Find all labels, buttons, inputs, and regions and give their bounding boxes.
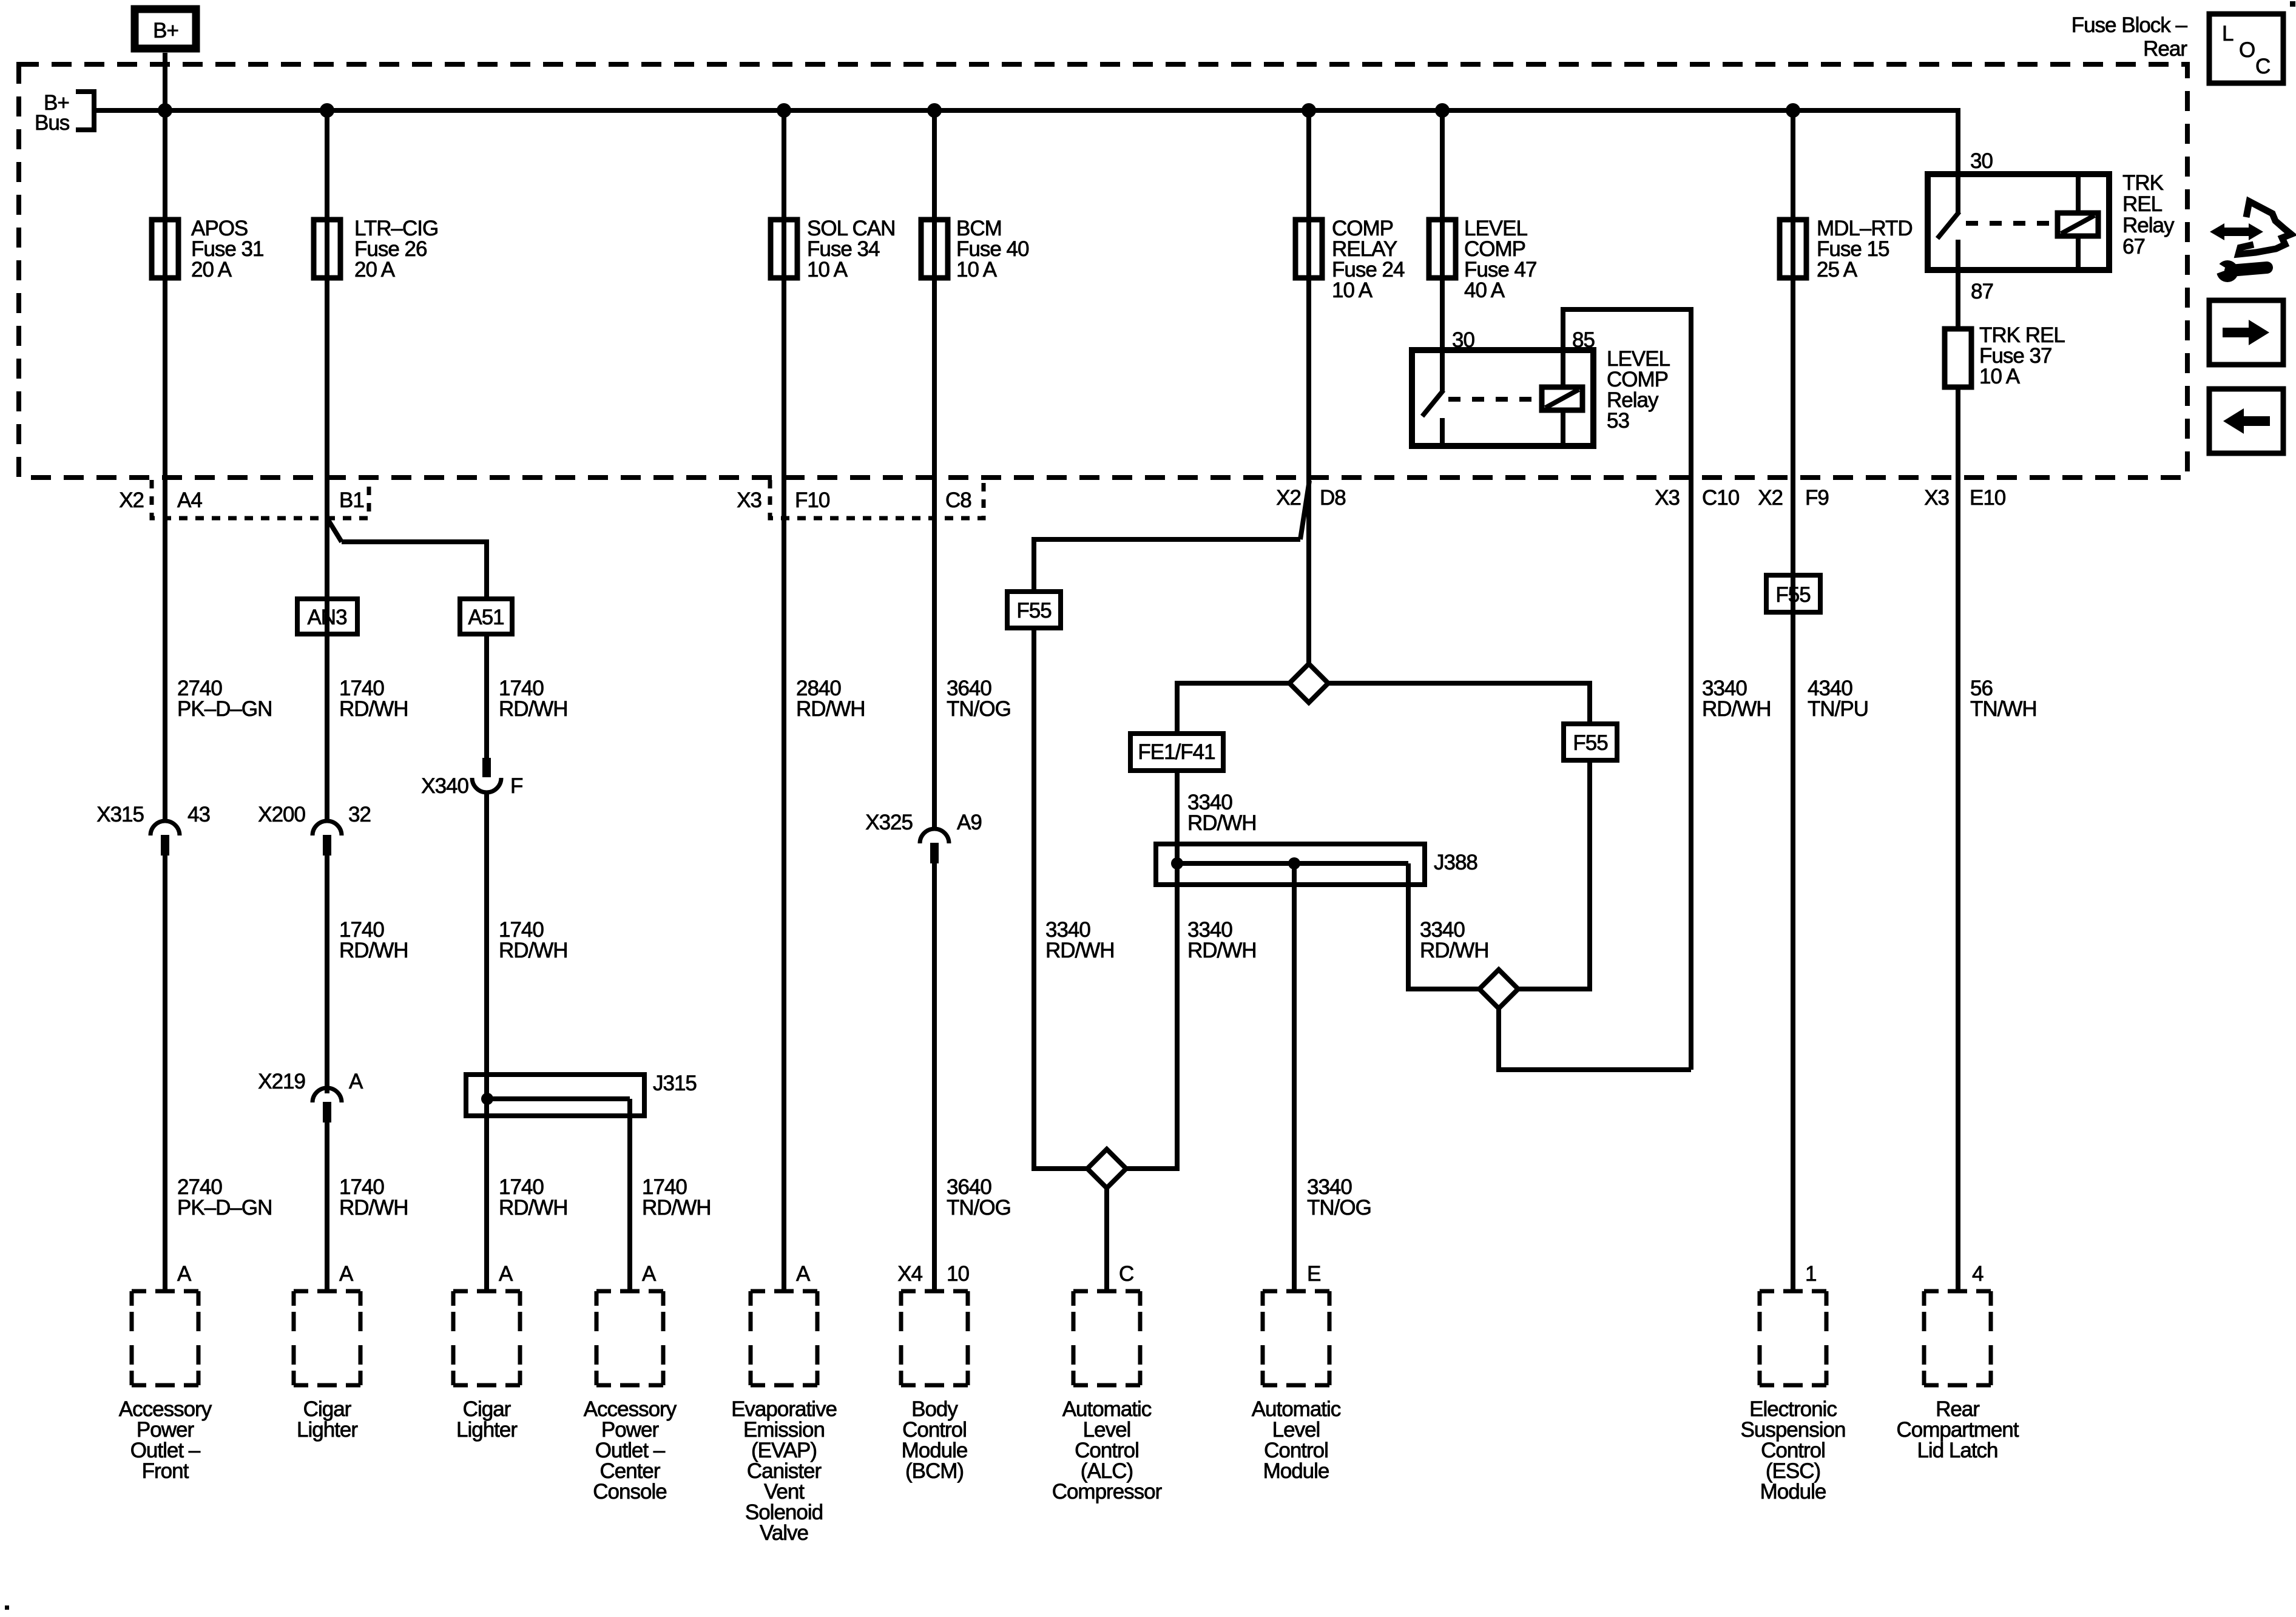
- svg-text:C: C: [1119, 1262, 1133, 1286]
- junction dot J388 middle: [1288, 857, 1300, 869]
- wire: branch at pin B1 (diagonal jog): [327, 518, 342, 542]
- relay 67 switch blade: [1937, 212, 1959, 238]
- svg-text:F55: F55: [1775, 583, 1810, 607]
- label circuit 1740 RD/WH (cigar lighter 2): [499, 1175, 568, 1220]
- label X315 / pin 43: [96, 803, 210, 826]
- label Cigar Lighter 2: [456, 1397, 518, 1442]
- relay 53 coil: [1542, 387, 1582, 410]
- connector F55 (left): [1007, 592, 1061, 628]
- label X340 / pin F: [421, 774, 522, 798]
- svg-text:RD/WH: RD/WH: [1187, 811, 1257, 835]
- svg-text:10 A: 10 A: [807, 258, 848, 282]
- connector X219 (splice symbol): [312, 1088, 342, 1122]
- fuse F26 LTR-CIG 20A: [314, 220, 340, 278]
- relay 67 switch contact / pin 87 wire: [1956, 240, 1960, 329]
- fuse F24 COMP RELAY 10A: [1295, 220, 1322, 278]
- wire: relay 53 pin 85 up and over to C10: [1563, 309, 1691, 1070]
- svg-text:X2: X2: [1276, 486, 1301, 510]
- wire: lower diamond to C10 riser: [1499, 1008, 1691, 1070]
- svg-text:X2: X2: [119, 488, 144, 512]
- component: Cigar Lighter (dashed box): [294, 1291, 360, 1385]
- svg-text:X219: X219: [258, 1070, 305, 1093]
- svg-text:AN3: AN3: [307, 606, 346, 629]
- svg-text:X4: X4: [897, 1262, 922, 1286]
- svg-text:40 A: 40 A: [1464, 279, 1505, 302]
- connector A51: [460, 599, 512, 634]
- svg-text:32: 32: [348, 803, 371, 826]
- service tool icon (wrench): [2212, 260, 2267, 282]
- svg-text:10 A: 10 A: [956, 258, 998, 282]
- label circuit 2740 PK-D-GN (upper): [177, 677, 272, 721]
- wire: F55 left down to ALC diamond: [1034, 628, 1087, 1169]
- svg-text:B1: B1: [339, 488, 364, 512]
- label circuit 3340 RD/WH (below J388 left): [1187, 918, 1257, 962]
- junction dot J388 left: [1171, 857, 1183, 869]
- connector FE1/F41: [1130, 734, 1223, 771]
- svg-text:C8: C8: [945, 488, 971, 512]
- label Cigar Lighter: [297, 1397, 358, 1442]
- label TRK REL Relay 67: [2122, 171, 2175, 258]
- fuse F34 SOL CAN 10A: [771, 220, 797, 278]
- label circuit 3340 RD/WH (below J388 right): [1420, 918, 1489, 962]
- label LEVEL COMP Relay 53: [1607, 347, 1670, 433]
- svg-text:J388: J388: [1434, 851, 1477, 874]
- label circuit 2740 PK-D-GN (lower): [177, 1175, 272, 1220]
- svg-text:TN/OG: TN/OG: [947, 1196, 1011, 1220]
- label circuit 4340 TN/PU: [1808, 677, 1868, 721]
- connector X315 (splice symbol): [150, 821, 180, 856]
- svg-text:RD/WH: RD/WH: [339, 1196, 408, 1220]
- wire: ALC diamond down to compressor pin C: [1104, 1188, 1109, 1291]
- svg-text:A: A: [177, 1262, 192, 1286]
- component: Accessory Power Outlet - Front (dashed box): [132, 1291, 198, 1385]
- connector X325 (splice symbol): [920, 829, 949, 863]
- wire: X219 to Cigar Lighter: [325, 1122, 329, 1291]
- relay 67 TRK REL (box): [1928, 174, 2109, 270]
- connector X340 (splice symbol, reversed): [472, 758, 501, 792]
- svg-text:RD/WH: RD/WH: [499, 697, 568, 721]
- diamond splice (D8 top): [1289, 664, 1328, 703]
- svg-text:Lid Latch: Lid Latch: [1917, 1439, 1997, 1462]
- component: ALC Compressor (dashed box): [1073, 1291, 1140, 1385]
- component: ALC Module (dashed box): [1263, 1291, 1329, 1385]
- svg-text:TN/WH: TN/WH: [1970, 697, 2037, 721]
- svg-text:10 A: 10 A: [1332, 279, 1373, 302]
- junction: bus / fuse 26 wire: [320, 103, 334, 118]
- component: Rear Compartment Lid Latch (dashed box): [1924, 1291, 1991, 1385]
- svg-text:Console: Console: [593, 1480, 666, 1504]
- svg-text:25 A: 25 A: [1817, 258, 1858, 282]
- relay 53 switch contact stub: [1440, 418, 1445, 445]
- svg-text:43: 43: [187, 803, 210, 826]
- component: Accessory Power Outlet - Center Console (dashed box): [596, 1291, 663, 1385]
- svg-text:(BCM): (BCM): [905, 1459, 964, 1483]
- svg-text:Module: Module: [1263, 1459, 1329, 1483]
- svg-text:X2: X2: [1758, 486, 1783, 510]
- junction: bus / fuse 34 wire: [777, 103, 791, 118]
- svg-text:A9: A9: [957, 811, 982, 834]
- svg-text:RD/WH: RD/WH: [499, 1196, 568, 1220]
- page mark bottom left: [5, 1605, 9, 1610]
- wire: bus corner down to relay 67 pin 30: [1956, 108, 1960, 213]
- svg-text:X315: X315: [96, 803, 144, 826]
- svg-text:X325: X325: [865, 811, 913, 834]
- service tool icon (double arrow): [2210, 223, 2263, 240]
- label Accessory Power Outlet Front: [119, 1397, 212, 1483]
- label Accessory Power Outlet Center Console: [584, 1397, 677, 1504]
- connector X200 (splice symbol): [312, 821, 342, 856]
- component: Cigar Lighter 2 (dashed box): [453, 1291, 520, 1385]
- svg-text:RD/WH: RD/WH: [1702, 697, 1771, 721]
- label circuit 1740 RD/WH (outlet center console): [642, 1175, 711, 1220]
- relay 53 switch blade: [1422, 390, 1443, 416]
- svg-text:Compressor: Compressor: [1052, 1480, 1163, 1504]
- label circuit 3640 TN/OG (upper): [947, 677, 1011, 721]
- label circuit 3340 RD/WH (F55 left): [1045, 918, 1115, 962]
- fuse F47 LEVEL COMP 40A: [1429, 220, 1456, 278]
- svg-text:F55: F55: [1016, 599, 1051, 623]
- label ALC Compressor: [1052, 1397, 1163, 1504]
- splice pack J388: [1156, 844, 1425, 885]
- svg-text:X340: X340: [421, 774, 468, 798]
- fuse F15 MDL-RTD 25A: [1780, 220, 1806, 278]
- B+ bus bracket: [76, 92, 94, 130]
- label circuit 3340 RD/WH (C10 wire): [1702, 677, 1771, 721]
- wire: X340 through J315 to Cigar Lighter 2: [484, 792, 489, 1291]
- svg-text:30: 30: [1970, 149, 1993, 173]
- svg-text:Relay: Relay: [2122, 214, 2175, 237]
- label EVAP valve: [731, 1397, 837, 1545]
- svg-text:RD/WH: RD/WH: [499, 939, 568, 962]
- wire: diamond left arm to FE1/F41: [1177, 683, 1289, 734]
- svg-text:A: A: [499, 1262, 513, 1286]
- svg-text:E: E: [1307, 1262, 1320, 1286]
- label fuse 26: [354, 217, 438, 282]
- wire: bus through fuse 15 and F55 to ESC module: [1791, 110, 1795, 1291]
- relay 53 coil pin lines: [1561, 350, 1565, 445]
- label Rear Compartment Lid Latch: [1896, 1397, 2019, 1462]
- svg-text:J315: J315: [653, 1072, 697, 1095]
- connector AN3: [297, 599, 357, 634]
- svg-text:E10: E10: [1970, 486, 2006, 510]
- svg-text:RD/WH: RD/WH: [796, 697, 865, 721]
- svg-text:TN/OG: TN/OG: [947, 697, 1011, 721]
- svg-text:Valve: Valve: [760, 1521, 808, 1545]
- wire: X315 to Accessory Power Outlet Front: [163, 856, 167, 1291]
- relay 67 coil pin lines: [2076, 174, 2081, 270]
- svg-text:A: A: [339, 1262, 354, 1286]
- wire: D8 branch diagonal jog: [1300, 481, 1309, 539]
- junction: bus / fuse 47 wire: [1435, 103, 1450, 118]
- svg-text:10: 10: [947, 1262, 969, 1286]
- label ESC module: [1741, 1397, 1846, 1504]
- wire: diamond right arm to F55 (right): [1328, 683, 1590, 724]
- svg-text:O: O: [2239, 38, 2255, 62]
- wire: J315 to Accessory Power Outlet Center Console: [627, 1099, 632, 1291]
- label X325 / pin A9: [865, 811, 982, 834]
- wire: FE1/F41 down through J388 to ALC diamond: [1126, 771, 1177, 1169]
- svg-text:4: 4: [1972, 1262, 1984, 1286]
- svg-text:Front: Front: [142, 1459, 189, 1483]
- svg-text:A4: A4: [177, 488, 202, 512]
- label circuit 3340 RD/WH (FE1/F41): [1187, 791, 1257, 835]
- svg-text:Lighter: Lighter: [456, 1418, 518, 1442]
- label fuse 37: [1979, 323, 2065, 388]
- wire: J388 right end down to lower diamond: [1408, 863, 1479, 989]
- svg-text:87: 87: [1971, 280, 1993, 303]
- service tool icon (outline squiggle): [2238, 201, 2291, 254]
- svg-text:B+: B+: [153, 19, 178, 42]
- svg-text:X200: X200: [258, 803, 305, 826]
- wire: bus through fuse 34 to EVAP valve: [782, 110, 786, 1291]
- label X2 / F9: [1758, 486, 1829, 510]
- junction dot in J315: [481, 1093, 493, 1105]
- svg-text:Lighter: Lighter: [297, 1418, 358, 1442]
- label circuit 1740 RD/WH (fuse 26 upper): [339, 677, 408, 721]
- wire: bus through fuse 47 to relay 53 pin 30: [1440, 110, 1445, 391]
- label fuse 34: [807, 217, 895, 282]
- connector F55 (right): [1564, 724, 1617, 760]
- svg-text:85: 85: [1572, 328, 1595, 352]
- label X3 / C10: [1655, 486, 1740, 510]
- svg-text:F55: F55: [1573, 731, 1607, 755]
- forward arrow box: [2209, 300, 2283, 365]
- svg-text:20 A: 20 A: [354, 258, 396, 282]
- relay 67 actuator dashed link: [1966, 221, 2058, 226]
- svg-text:Rear: Rear: [2143, 37, 2187, 61]
- label fuse 47: [1464, 217, 1536, 302]
- label X200 / pin 32: [258, 803, 371, 826]
- svg-text:RD/WH: RD/WH: [1420, 939, 1489, 962]
- svg-text:L: L: [2222, 22, 2234, 46]
- label X3 / F10 / C8: [737, 488, 971, 512]
- label fuse 40: [956, 217, 1029, 282]
- label fuse 24: [1332, 217, 1405, 302]
- svg-text:REL: REL: [2122, 192, 2163, 216]
- component: ESC Module (dashed box): [1760, 1291, 1826, 1385]
- svg-text:53: 53: [1607, 409, 1629, 433]
- svg-text:Fuse Block –: Fuse Block –: [2071, 13, 2188, 37]
- svg-text:PK–D–GN: PK–D–GN: [177, 697, 272, 721]
- svg-text:PK–D–GN: PK–D–GN: [177, 1196, 272, 1220]
- relay 53 actuator dashed link: [1448, 397, 1542, 402]
- label ALC Module: [1252, 1397, 1341, 1483]
- fuse F31 APOS 20A: [152, 220, 178, 278]
- wire: bus through fuse 40 to splice X325: [932, 110, 937, 831]
- svg-text:A51: A51: [468, 606, 504, 629]
- relay 53 LEVEL COMP (box): [1412, 350, 1593, 446]
- junction: bus / fuse 24 wire: [1302, 103, 1316, 118]
- svg-text:10 A: 10 A: [1979, 365, 2021, 388]
- svg-text:TN/PU: TN/PU: [1808, 697, 1868, 721]
- label circuit 2840 RD/WH: [796, 677, 865, 721]
- wire: bus through fuse 24 (COMP RELAY) down to diamond splice: [1306, 110, 1311, 664]
- junction: bus / fuse 40 wire: [927, 103, 942, 118]
- svg-text:Module: Module: [1760, 1480, 1826, 1504]
- label circuit 56 TN/WH: [1970, 677, 2037, 721]
- svg-text:RD/WH: RD/WH: [339, 939, 408, 962]
- svg-text:TRK: TRK: [2122, 171, 2164, 195]
- label circuit 3640 TN/OG (lower): [947, 1175, 1011, 1220]
- wire: branch B1 to A51: [342, 542, 487, 599]
- wire: bus through fuse 26, AN3 to splice X200: [325, 110, 329, 823]
- svg-text:RD/WH: RD/WH: [1045, 939, 1115, 962]
- label X3 / E10: [1924, 486, 2006, 510]
- label circuit 3340 TN/OG (ALC module): [1307, 1175, 1371, 1220]
- diamond splice (ALC compressor): [1087, 1149, 1126, 1188]
- svg-text:1: 1: [1805, 1262, 1816, 1286]
- svg-text:30: 30: [1452, 328, 1474, 352]
- diamond splice (lower): [1479, 970, 1518, 1008]
- wire: A51 to X340: [484, 634, 489, 758]
- label circuit 1740 RD/WH (fuse 26 middle): [339, 918, 408, 962]
- svg-text:F10: F10: [795, 488, 830, 512]
- connector F55 (ESC): [1766, 575, 1820, 612]
- label X219 / pin A: [258, 1070, 363, 1093]
- connector sub-box X2 (A4/B1) dashed: [152, 480, 369, 518]
- label X4 / pin 10 (BCM): [897, 1262, 969, 1286]
- svg-text:C: C: [2255, 55, 2270, 78]
- wire: branch D8 to F55 (left): [1034, 539, 1300, 592]
- label BCM: [902, 1397, 968, 1483]
- svg-text:FE1/F41: FE1/F41: [1138, 740, 1215, 764]
- LOC reference box: [2209, 14, 2283, 83]
- svg-text:A: A: [349, 1070, 363, 1093]
- B+ bus label: [35, 91, 70, 135]
- back arrow box: [2209, 389, 2283, 453]
- component: EVAP Canister Vent Solenoid Valve (dashed box): [751, 1291, 817, 1385]
- fuse F40 BCM 10A: [921, 220, 948, 278]
- label X2 / A4 / B1: [119, 488, 364, 512]
- svg-text:Bus: Bus: [35, 111, 70, 135]
- svg-text:A: A: [796, 1262, 811, 1286]
- relay 67 coil: [2058, 213, 2098, 236]
- svg-text:20 A: 20 A: [191, 258, 232, 282]
- title: Fuse Block - Rear: [2071, 13, 2188, 61]
- svg-text:A: A: [642, 1262, 657, 1286]
- label circuit 1740 RD/WH (A51 upper): [499, 677, 568, 721]
- wire: fuse 37 to Rear Compartment Lid Latch: [1956, 387, 1960, 1291]
- wire: X200 to X219: [325, 856, 329, 1093]
- wire: F55 right down to lower diamond: [1518, 760, 1590, 989]
- B+ terminal box: [135, 9, 196, 49]
- page mark top right: [2290, 1, 2295, 7]
- junction: bus / fuse 15 wire: [1786, 103, 1800, 118]
- svg-text:RD/WH: RD/WH: [642, 1196, 711, 1220]
- junction: bus / fuse 31 wire: [158, 103, 172, 118]
- svg-text:C10: C10: [1702, 486, 1740, 510]
- wire: X325 to BCM: [932, 863, 937, 1291]
- fuse F37 TRK REL 10A: [1945, 329, 1971, 387]
- B+ bus wire: [94, 108, 1958, 113]
- svg-text:X3: X3: [737, 488, 761, 512]
- component: Body Control Module (dashed box): [901, 1291, 968, 1385]
- fuse block - rear dashed border: [19, 64, 2187, 478]
- svg-text:F: F: [510, 774, 522, 798]
- svg-text:X3: X3: [1655, 486, 1680, 510]
- svg-text:F9: F9: [1805, 486, 1829, 510]
- splice pack J315: [466, 1075, 644, 1116]
- svg-text:TN/OG: TN/OG: [1307, 1196, 1371, 1220]
- connector sub-box X3 (F10/C8) dashed: [770, 480, 984, 518]
- svg-text:RD/WH: RD/WH: [339, 697, 408, 721]
- label fuse 15: [1817, 217, 1913, 282]
- label circuit 1740 RD/WH (X340 middle): [499, 918, 568, 962]
- wire: B+ terminal down through fuse 31 to splice X315: [163, 53, 167, 823]
- svg-text:67: 67: [2122, 235, 2145, 258]
- svg-text:X3: X3: [1924, 486, 1949, 510]
- svg-text:RD/WH: RD/WH: [1187, 939, 1257, 962]
- label X2 / D8: [1276, 486, 1346, 510]
- wire: J388 middle down to ALC Module: [1292, 863, 1297, 1291]
- label circuit 1740 RD/WH (fuse 26 lower): [339, 1175, 408, 1220]
- label fuse 31: [191, 217, 263, 282]
- svg-text:D8: D8: [1320, 486, 1346, 510]
